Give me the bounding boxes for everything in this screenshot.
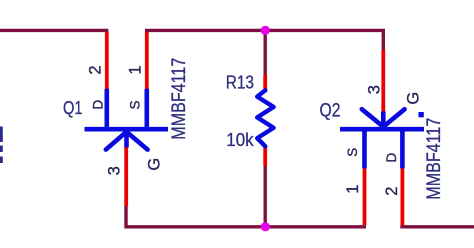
svg-text:MMBF4117: MMBF4117: [424, 118, 445, 200]
svg-text:Q1: Q1: [63, 97, 83, 118]
transistor Q2 body: [340, 109, 424, 168]
resistor R13 body: [257, 90, 273, 146]
junction node top: [261, 26, 270, 35]
Q1 arrow left: [106, 132, 127, 150]
clipped net label fragment at left edge: [0, 127, 3, 164]
svg-text:10k: 10k: [226, 129, 254, 150]
Q1 arrow right: [127, 132, 148, 150]
wire Q1 gate down and bottom rail to Q2 pin 1: [126, 206, 366, 227]
pin 1 of Q2 (red): [363, 168, 367, 226]
svg-text:3: 3: [366, 85, 384, 94]
wire top-left to Q1 drain: [0, 29, 108, 32]
Q1 drain lead: [105, 89, 110, 129]
Q2 gate lead: [381, 112, 386, 130]
Q2 source lead: [362, 129, 367, 168]
svg-text:G: G: [145, 158, 163, 171]
pin 2 of Q1 (red): [105, 32, 109, 91]
wire Q1 source to top-right corner down to Q2 gate: [145, 30, 383, 50]
wire junction to R13 top: [264, 30, 267, 75]
svg-text:Q2: Q2: [320, 101, 341, 122]
wire R13 bottom to bottom rail: [264, 166, 267, 227]
Q1 gate lead: [124, 129, 129, 147]
Q2 drain lead: [400, 129, 405, 168]
svg-text:3: 3: [105, 166, 123, 175]
resistor R13 top pin (red): [263, 75, 267, 91]
Q2 arrow right: [383, 109, 404, 127]
svg-text:S: S: [127, 100, 142, 109]
svg-text:R13: R13: [226, 71, 254, 92]
svg-text:1: 1: [344, 185, 362, 194]
svg-text:1: 1: [126, 65, 144, 74]
svg-text:S: S: [345, 148, 360, 157]
svg-text:MMBF4117: MMBF4117: [169, 58, 190, 140]
transistor Q1 body: [85, 89, 169, 150]
pin 3 of Q2 gate (red): [381, 50, 385, 112]
pin 3 of Q1 gate (red): [124, 147, 128, 207]
wire Q2 pin 2 to right edge: [400, 225, 474, 228]
Q2 bar end tick: [419, 112, 424, 117]
pin 1 of Q1 (red): [145, 32, 149, 91]
svg-text:D: D: [90, 99, 105, 109]
junction node bottom: [261, 222, 270, 231]
Q1 source lead: [145, 89, 150, 129]
svg-text:D: D: [384, 152, 399, 162]
svg-text:2: 2: [87, 65, 105, 74]
Q2 channel bar: [340, 127, 424, 132]
pin 2 of Q2 (red): [400, 168, 404, 226]
Q2 arrow left: [362, 109, 384, 127]
resistor R13 bottom pin (red): [263, 146, 267, 166]
svg-text:2: 2: [383, 187, 401, 196]
Q1 channel bar: [85, 127, 169, 132]
svg-text:G: G: [405, 92, 423, 105]
